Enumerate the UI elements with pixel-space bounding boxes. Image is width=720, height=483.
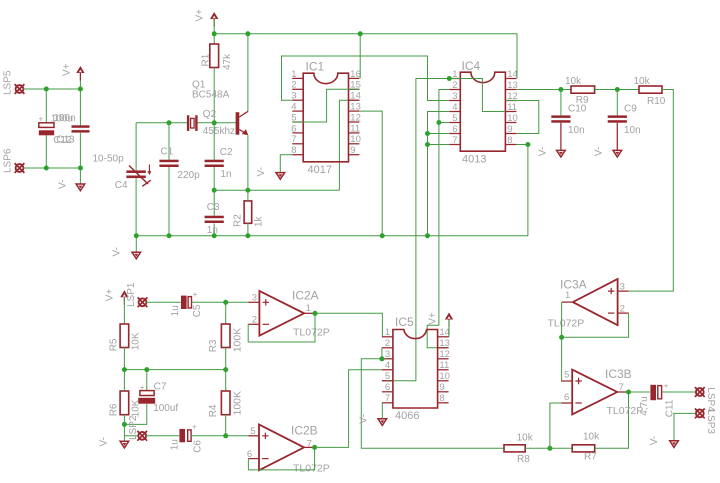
- wire C13 to V-: [79, 133, 81, 184]
- value 100uf: [153, 403, 178, 414]
- svg-text:13: 13: [507, 80, 518, 91]
- resistor R3: [221, 324, 230, 348]
- IC5 pin 3 stub: [382, 358, 393, 360]
- IC3A pin 1 stub: [562, 301, 573, 303]
- node V+ rail at IC1 pin 16: [358, 31, 363, 36]
- svg-text:7: 7: [385, 393, 390, 404]
- wire R6 to V-: [123, 415, 125, 442]
- wire V- node to LSP2: [124, 435, 138, 437]
- IC5 pin number 3: [385, 349, 390, 360]
- IC3B pin 6 stub: [561, 402, 572, 404]
- svg-text:6: 6: [247, 449, 252, 460]
- IC2B pin number 6: [247, 449, 252, 460]
- IC5 pin 10 stub: [438, 380, 449, 382]
- IC1 pin 4 stub: [292, 110, 303, 112]
- wire C10 top: [560, 90, 562, 116]
- IC5 pin number 7: [385, 393, 390, 404]
- svg-text:V-: V-: [58, 180, 69, 189]
- resistor R2: [244, 201, 252, 223]
- name IC5: [395, 315, 414, 329]
- wire mid rail to R6: [123, 370, 125, 391]
- node C1 top junction: [167, 120, 172, 125]
- wire IC4 pin5: [439, 122, 449, 124]
- svg-text:R3: R3: [208, 339, 219, 352]
- svg-text:V+: V+: [104, 289, 115, 302]
- wire IC1 pin8 to ground: [280, 155, 292, 173]
- capacitor C11 (4,7u polarized): [650, 382, 668, 401]
- IC4 pin number 4: [452, 102, 457, 113]
- svg-text:1: 1: [385, 327, 390, 338]
- svg-text:2: 2: [620, 303, 625, 314]
- svg-text:LSP3: LSP3: [705, 410, 716, 435]
- name C7: [154, 381, 167, 392]
- svg-text:C1: C1: [161, 146, 174, 157]
- node IC3B output: [626, 390, 631, 395]
- svg-text:Q2: Q2: [203, 109, 217, 120]
- svg-text:3: 3: [620, 281, 625, 292]
- pad LSP4: [695, 387, 705, 397]
- label V+: [62, 63, 73, 76]
- V+ symbol (IC2A bias): [120, 290, 128, 305]
- IC1 pin number 3: [291, 91, 296, 102]
- value 10-50p: [93, 154, 125, 165]
- name C13 (overlapped): [56, 135, 75, 146]
- IC5 pin 14 stub: [438, 336, 449, 338]
- capacitor C9 (10n): [608, 115, 627, 122]
- value TL072P IC3B: [607, 405, 644, 417]
- IC1 pin number 14: [350, 91, 361, 102]
- wire ground rail to V- symbol: [135, 236, 137, 253]
- name R4: [208, 404, 219, 417]
- svg-text:11: 11: [507, 102, 517, 113]
- label V+ IC5: [427, 312, 438, 325]
- svg-text:2: 2: [252, 315, 257, 326]
- node V+ rail at Q1 collector: [245, 31, 250, 36]
- IC3A pin 2 stub: [618, 312, 629, 314]
- name R8: [517, 454, 530, 465]
- IC4 pin 13 stub: [505, 89, 516, 91]
- wire LSP3 to ground: [674, 413, 696, 440]
- value 10n C10: [568, 125, 585, 136]
- value 100K R3: [231, 328, 243, 353]
- svg-text:IC1: IC1: [306, 59, 325, 73]
- IC5 pin number 11: [439, 360, 449, 371]
- value 10K R6: [131, 399, 142, 417]
- name IC2A: [292, 289, 319, 303]
- IC4 pin number 3: [452, 91, 457, 102]
- wire mid rail: [124, 369, 225, 371]
- svg-text:5: 5: [452, 113, 457, 124]
- svg-text:+: +: [140, 383, 145, 392]
- svg-text:TL072P: TL072P: [293, 327, 330, 339]
- wire IC2A output to IC5 pin1: [315, 313, 382, 337]
- wire C2 to emitter rail: [213, 166, 215, 190]
- IC2A pin 2 stub: [248, 323, 259, 325]
- IC4 pin 11 stub: [505, 111, 516, 113]
- wire IC4 pin1 to pin11 over body: [449, 79, 505, 112]
- wire IC4 pin6 to ground net: [428, 133, 450, 135]
- wire IC4 pin13 to R9: [516, 89, 561, 91]
- IC4 pin number 7: [452, 135, 457, 146]
- value 4066: [395, 410, 419, 422]
- pad LSP5: [15, 84, 25, 94]
- svg-text:LSP5: LSP5: [3, 70, 14, 95]
- svg-text:V+: V+: [195, 9, 206, 22]
- svg-text:10: 10: [350, 134, 361, 145]
- IC1 pin 2 stub: [292, 88, 303, 90]
- IC1 pin number 8: [291, 145, 296, 156]
- svg-text:V-: V-: [537, 147, 548, 156]
- value 1k: [254, 215, 265, 227]
- svg-text:6: 6: [291, 123, 296, 134]
- wire R3 top: [225, 302, 227, 324]
- wire to R9 left: [561, 89, 571, 91]
- name Q2: [203, 109, 217, 120]
- value 100u (overlapped): [51, 113, 73, 124]
- wire C5 to IC2A pin3: [192, 301, 249, 303]
- IC3A pin number 2: [620, 303, 625, 314]
- IC1 pin number 10: [350, 134, 361, 145]
- value 1n C2: [220, 169, 231, 180]
- svg-text:10k: 10k: [634, 76, 651, 87]
- svg-text:BC548A: BC548A: [192, 89, 230, 100]
- resistor R8: [504, 445, 525, 452]
- svg-text:10k: 10k: [583, 431, 600, 442]
- wire V+ rail down to IC4 pin 14: [516, 34, 518, 79]
- wire R1 to C2/base node: [213, 68, 215, 160]
- svg-text:10K: 10K: [131, 399, 142, 417]
- svg-text:1k: 1k: [254, 215, 265, 227]
- svg-text:5: 5: [250, 426, 255, 437]
- svg-text:R8: R8: [517, 454, 530, 465]
- wire mid rail to C7: [146, 370, 148, 391]
- ground V- symbol (LSP3): [670, 441, 679, 448]
- connector label LSP6: [3, 148, 14, 173]
- ground V- symbol (C10): [557, 150, 566, 157]
- name IC2B: [291, 423, 318, 437]
- svg-text:7: 7: [291, 134, 296, 145]
- IC4 pin number 12: [507, 91, 518, 102]
- value 10K R5: [131, 332, 142, 350]
- IC3B pin number 5: [564, 369, 569, 380]
- node C2 bottom junction: [212, 188, 217, 193]
- label V- LSP2: [99, 437, 110, 446]
- IC2A pin 1 stub: [304, 312, 315, 314]
- svg-text:4,7u: 4,7u: [639, 396, 650, 415]
- svg-text:7: 7: [452, 135, 457, 146]
- wire C7 to V- node: [124, 404, 146, 425]
- wire IC5 pin2 to pin3: [381, 348, 383, 359]
- IC4 pin number 10: [507, 113, 518, 124]
- resistor R7: [572, 445, 595, 452]
- resistor R9: [571, 86, 595, 93]
- svg-text:4013: 4013: [462, 154, 486, 166]
- IC4 pin 7 stub: [449, 144, 460, 146]
- IC4 pin 2 stub: [449, 89, 460, 91]
- IC5 pin 1 stub: [382, 336, 393, 338]
- value 10k R7: [583, 431, 600, 442]
- wire emitter down: [247, 135, 249, 190]
- value 100K R4: [231, 391, 243, 416]
- value TL072P IC2A: [293, 327, 330, 339]
- IC4 pin number 14: [507, 69, 518, 80]
- wire collector to V+ rail: [247, 34, 249, 112]
- svg-text:2: 2: [291, 80, 296, 91]
- svg-text:13: 13: [439, 338, 450, 349]
- connector label LSP4: [705, 387, 716, 412]
- node R4 bottom junction: [223, 433, 228, 438]
- value BC548A: [192, 89, 230, 100]
- svg-text:14: 14: [507, 69, 518, 80]
- wire IC1 pin16 to V+ rail: [359, 34, 361, 79]
- wire V+ to R5: [123, 298, 125, 324]
- svg-text:1u: 1u: [170, 305, 181, 316]
- svg-text:11: 11: [350, 123, 360, 134]
- wire IC1 pin3 to IC4 pin3: [282, 56, 450, 101]
- node R9/C10 junction: [558, 87, 563, 92]
- wire IC4 pin4 to ground rail: [428, 112, 450, 236]
- IC5 pin 4 stub: [382, 369, 393, 371]
- value 4013: [462, 154, 486, 166]
- IC5 pin number 9: [439, 382, 444, 393]
- svg-text:C5: C5: [192, 304, 203, 317]
- IC1 pin 12 stub: [349, 121, 360, 123]
- svg-text:47k: 47k: [222, 53, 233, 70]
- svg-text:100K: 100K: [231, 328, 243, 353]
- wire emitter to R2: [247, 190, 249, 201]
- node IC4 pin5 junction: [436, 120, 441, 125]
- wire V+ to IC5 pin14: [448, 320, 450, 337]
- wire R4 to C6 line: [225, 415, 227, 436]
- svg-text:9: 9: [350, 145, 355, 156]
- name C4: [115, 180, 128, 191]
- IC4 pin 9 stub: [505, 133, 516, 135]
- wire C6 to IC2B pin5: [191, 435, 248, 437]
- IC3B pin number 7: [619, 382, 624, 393]
- capacitor C12 (100u electrolytic): [39, 115, 55, 136]
- connector label LSP3: [705, 410, 716, 435]
- node V+ rail at R1: [212, 31, 217, 36]
- pad LSP1: [138, 297, 148, 307]
- IC5 pin 9 stub: [438, 391, 449, 393]
- label V+ IC2A: [104, 289, 115, 302]
- node ground rail IC1 pin13 net: [380, 233, 385, 238]
- svg-text:10n: 10n: [568, 125, 585, 136]
- svg-text:2: 2: [452, 80, 457, 91]
- IC1 pin 10 stub: [349, 143, 360, 145]
- IC4 pin 3 stub: [449, 100, 460, 102]
- IC1 pin number 16: [350, 69, 361, 80]
- V+ symbol (oscillator): [210, 12, 218, 27]
- svg-text:R6: R6: [109, 403, 120, 416]
- value 220p: [177, 170, 200, 181]
- wire junction to IC3B pin6: [550, 403, 561, 448]
- svg-text:4: 4: [291, 102, 296, 113]
- capacitor C5 (1u polarized): [181, 290, 198, 309]
- label V- C10: [537, 147, 548, 156]
- svg-text:4066: 4066: [395, 410, 419, 422]
- svg-text:IC2A: IC2A: [292, 289, 319, 303]
- name Q1: [192, 80, 206, 91]
- wire IC3B output to C11: [629, 391, 650, 393]
- node ground rail IC4 gnd net: [425, 233, 430, 238]
- node R8/R7 junction: [547, 446, 552, 451]
- label V- C9: [594, 147, 605, 156]
- op-amp IC3B (TL072P): [572, 370, 617, 415]
- node IC5 pin3 junction: [379, 356, 384, 361]
- svg-text:12: 12: [350, 112, 361, 123]
- trimmer capacitor C4 (10-50p): [126, 165, 151, 187]
- svg-text:4017: 4017: [308, 164, 332, 176]
- IC3B pin number 6: [564, 392, 569, 403]
- svg-text:C7: C7: [154, 381, 167, 392]
- label V-: [58, 180, 69, 189]
- svg-text:100uf: 100uf: [153, 403, 178, 414]
- IC5 pin number 5: [385, 371, 390, 382]
- svg-text:14: 14: [350, 91, 361, 102]
- wire LSP1 to C5: [146, 301, 181, 303]
- IC4 pin 1 stub: [449, 78, 460, 80]
- ground V- symbol (IC1): [276, 173, 285, 180]
- name C6: [192, 440, 203, 453]
- wire R2 to ground rail: [247, 223, 249, 235]
- svg-text:IC3A: IC3A: [560, 278, 587, 292]
- svg-text:V+: V+: [62, 63, 73, 76]
- svg-text:9: 9: [439, 382, 444, 393]
- capacitor C6 (1u polarized): [179, 423, 197, 443]
- svg-text:1n: 1n: [220, 169, 231, 180]
- IC2B pin number 5: [250, 426, 255, 437]
- node IC4 pin7 junction: [425, 142, 430, 147]
- node R10/C9 junction: [615, 87, 620, 92]
- svg-text:+: +: [193, 290, 198, 299]
- IC5 pin number 1: [385, 327, 390, 338]
- svg-text:10k: 10k: [517, 432, 534, 443]
- wire C3 to ground rail: [213, 223, 215, 235]
- name R2: [232, 214, 243, 227]
- wire IC3A feedback: [562, 313, 629, 337]
- value TL072P IC3A: [548, 318, 585, 330]
- value 10n C9: [624, 125, 641, 136]
- wire C4 bottom to ground rail: [135, 178, 137, 235]
- pad LSP6: [15, 163, 25, 173]
- svg-text:R10: R10: [647, 96, 666, 107]
- IC4 pin number 2: [452, 80, 457, 91]
- name C5: [192, 304, 203, 317]
- node R3 top junction: [223, 300, 228, 305]
- svg-text:R7: R7: [584, 451, 597, 462]
- svg-text:11: 11: [439, 360, 449, 371]
- svg-text:V+: V+: [427, 312, 438, 325]
- name C3: [207, 202, 220, 213]
- IC1 pin number 1: [291, 69, 296, 80]
- capacitor C10 (10n): [551, 115, 570, 122]
- name R6: [109, 403, 120, 416]
- name R1: [200, 53, 211, 66]
- IC4 pin 8 stub: [505, 144, 516, 146]
- svg-text:4: 4: [385, 360, 390, 371]
- crystal Q2 (455khz): [187, 115, 198, 131]
- IC5 pin number 8: [439, 393, 444, 404]
- svg-text:9: 9: [507, 124, 512, 135]
- IC5 pin 2 stub: [382, 347, 393, 349]
- IC1 pin 11 stub: [349, 132, 360, 134]
- IC1 pin 7 stub: [292, 143, 303, 145]
- IC2A pin number 2: [252, 315, 257, 326]
- wire clock to IC1 pin 14: [339, 100, 359, 190]
- svg-text:10n: 10n: [624, 125, 641, 136]
- IC2B pin 6 stub: [248, 458, 259, 460]
- op-amp IC2A (TL072P): [259, 291, 304, 336]
- IC2A pin 3 stub: [248, 301, 259, 303]
- value 100n (overlapped): [53, 113, 75, 124]
- svg-text:1: 1: [291, 69, 296, 80]
- connector label LSP5: [3, 70, 14, 95]
- IC3A pin number 1: [565, 290, 570, 301]
- IC1 pin number 12: [350, 112, 361, 123]
- node base/crystal junction: [212, 120, 217, 125]
- node IC2A output: [313, 311, 318, 316]
- IC1 pin number 9: [350, 145, 355, 156]
- value 4017: [308, 164, 332, 176]
- svg-text:100K: 100K: [231, 391, 243, 416]
- node mid rail R3/R4: [223, 367, 228, 372]
- wire R5 to mid rail: [123, 348, 125, 370]
- IC1 pin number 5: [291, 112, 296, 123]
- name IC3B: [605, 367, 632, 381]
- wire LSP5 to V+: [23, 88, 80, 90]
- svg-text:455khz: 455khz: [203, 126, 235, 137]
- wire IC2B output to IC5 pin4: [315, 370, 382, 448]
- IC3B pin 5 stub: [561, 380, 572, 382]
- name R10: [647, 96, 666, 107]
- wire V+ rail: [214, 33, 517, 35]
- svg-text:LSP4: LSP4: [705, 387, 716, 412]
- connector label LSP1: [126, 282, 137, 307]
- IC5 pin 13 stub: [438, 347, 449, 349]
- svg-text:12: 12: [439, 349, 450, 360]
- svg-text:C13: C13: [56, 135, 75, 146]
- svg-text:220p: 220p: [177, 170, 200, 181]
- IC3A pin 3 stub: [618, 290, 629, 292]
- ground V- symbol (IC5): [378, 419, 387, 426]
- svg-text:V-: V-: [594, 147, 605, 156]
- value 10k R8: [517, 432, 534, 443]
- wire IC4 pin2 toggle and to IC5 pin13: [427, 90, 449, 348]
- IC4 pin 14 stub: [505, 78, 516, 80]
- wire C9 to ground (pin): [616, 123, 618, 151]
- IC5 pin 6 stub: [382, 391, 393, 393]
- label V- IC1: [256, 167, 267, 176]
- V+ symbol (supply block): [76, 66, 84, 81]
- svg-text:5: 5: [385, 371, 390, 382]
- wire IC5 pin3 to R8: [361, 359, 504, 449]
- svg-text:LSP2: LSP2: [128, 415, 139, 440]
- name C9: [624, 103, 637, 114]
- name R9: [576, 95, 589, 106]
- svg-text:V-: V-: [358, 414, 369, 423]
- svg-text:V-: V-: [649, 436, 660, 445]
- resistor R5: [120, 324, 129, 348]
- IC4 pin number 11: [507, 102, 517, 113]
- IC5 pin 11 stub: [438, 369, 449, 371]
- IC5 pin number 13: [439, 338, 450, 349]
- wire C4 top: [135, 123, 137, 170]
- node IC4 pin6 junction: [425, 131, 430, 136]
- label V+ oscillator: [195, 9, 206, 22]
- wire C9 top: [616, 90, 618, 116]
- node IC2B output: [312, 445, 317, 450]
